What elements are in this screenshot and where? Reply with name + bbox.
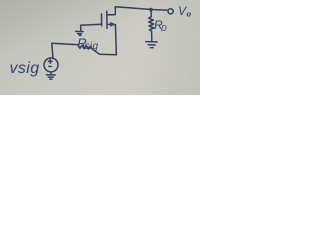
resistor RD zigzag xyxy=(149,10,154,41)
ground below vsig xyxy=(50,72,52,74)
ground below RD xyxy=(146,41,157,43)
resistor Rsig zigzag xyxy=(79,45,93,49)
transistor Q1 channel bar xyxy=(106,11,108,28)
minus dash in vsig xyxy=(49,65,51,67)
wire source lead with arrow xyxy=(107,23,114,25)
transistor Q1 gate bar xyxy=(101,14,103,26)
wire vsig up and right to Rsig xyxy=(52,43,79,58)
plus sign in vsig xyxy=(49,60,51,64)
wire drain lead xyxy=(107,7,115,15)
wire source down to bottom xyxy=(115,25,116,55)
svg-text:o: o xyxy=(187,10,192,19)
svg-text:sig: sig xyxy=(85,41,99,52)
wire gate to ground xyxy=(81,23,102,26)
ground at gate xyxy=(80,26,82,32)
source vsig circle xyxy=(44,58,58,72)
wire top drain to output xyxy=(115,7,167,10)
svg-text:vsig: vsig xyxy=(10,60,40,77)
node drain junction dot xyxy=(149,8,153,12)
wire Rsig to source lead xyxy=(92,49,116,55)
output terminal circle xyxy=(168,9,173,14)
svg-text:D: D xyxy=(161,24,167,33)
